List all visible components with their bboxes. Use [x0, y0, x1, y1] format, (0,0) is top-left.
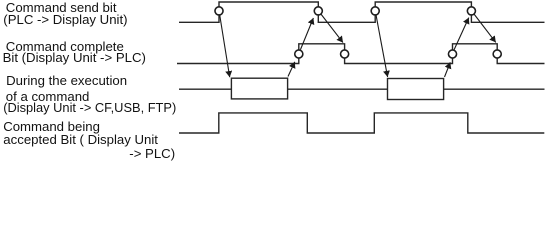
- label: Command being accepted line 2: [3, 134, 158, 146]
- arrow: complete rise 2 to send fall 2: [454, 18, 469, 50]
- node: complete-bit fall 1: [341, 50, 349, 58]
- label: Command being accepted line 3: [129, 148, 175, 160]
- label: During execution line 3: [3, 102, 176, 114]
- label: Command send bit line 2: [3, 14, 127, 26]
- label: Command complete line 1: [6, 41, 124, 53]
- node: send-bit rise 1: [215, 7, 223, 15]
- wire: command being accepted bit waveform: [179, 113, 544, 133]
- arrow: send rise 2 to execution box 2: [376, 15, 388, 77]
- node: complete-bit fall 2: [493, 50, 501, 58]
- wire: command complete bit waveform: [177, 44, 545, 64]
- box: execution period 1: [231, 78, 287, 99]
- arrow: send rise 1 to execution box 1: [220, 15, 230, 77]
- arrow: complete rise 1 to send fall 1: [301, 18, 314, 50]
- wire: during-execution baseline: [179, 88, 545, 90]
- node: send-bit fall 2: [467, 7, 475, 15]
- arrow: execution box 1 end to complete rise 1: [288, 62, 295, 77]
- label: Command complete line 2: [3, 52, 146, 64]
- node: send-bit rise 2: [371, 7, 379, 15]
- node: complete-bit rise 2: [448, 50, 456, 58]
- box: execution period 2: [388, 79, 444, 100]
- arrow: send fall 2 to complete fall 2: [474, 14, 496, 42]
- label: During execution line 2: [6, 91, 90, 103]
- arrow: execution box 2 end to complete rise 2: [445, 62, 451, 77]
- wire: command send bit waveform: [179, 2, 545, 22]
- label: Command being accepted line 1: [3, 121, 100, 133]
- label: During execution line 1: [6, 75, 127, 87]
- label: Command send bit line 1: [6, 2, 117, 14]
- node: send-bit fall 1: [314, 7, 322, 15]
- arrow: send fall 1 to complete fall 1: [321, 14, 343, 43]
- node: complete-bit rise 1: [295, 50, 303, 58]
